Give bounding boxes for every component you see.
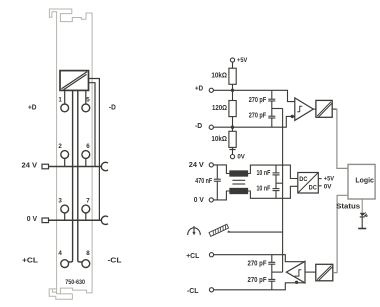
svg-text:-CL: -CL (187, 286, 199, 295)
svg-text:0 V: 0 V (27, 214, 37, 223)
svg-text:470 nF: 470 nF (195, 178, 212, 185)
svg-text:10kΩ: 10kΩ (211, 136, 227, 143)
svg-text:0 V: 0 V (194, 195, 204, 204)
svg-text:270 pF: 270 pF (249, 97, 267, 104)
svg-text:0V: 0V (324, 183, 332, 190)
svg-text:+D: +D (28, 102, 37, 111)
svg-text:DC: DC (309, 185, 317, 192)
svg-text:750-630: 750-630 (65, 280, 85, 286)
svg-text:+CL: +CL (22, 256, 38, 265)
svg-text:270 pF: 270 pF (248, 261, 268, 268)
svg-text:2: 2 (58, 143, 62, 150)
svg-text:-D: -D (195, 121, 203, 130)
svg-text:24 V: 24 V (189, 160, 204, 169)
svg-text:Status: Status (336, 202, 360, 211)
svg-text:+5V: +5V (324, 176, 335, 183)
svg-text:+D: +D (195, 84, 204, 93)
svg-text:1: 1 (58, 97, 62, 104)
svg-text:270 pF: 270 pF (249, 112, 267, 119)
svg-text:270 pF: 270 pF (248, 277, 268, 284)
svg-text:10 nF: 10 nF (257, 170, 271, 177)
svg-text:24 V: 24 V (22, 161, 38, 170)
svg-text:+5V: +5V (237, 57, 248, 64)
svg-text:5: 5 (86, 97, 90, 104)
svg-text:7: 7 (86, 198, 90, 205)
svg-text:+CL: +CL (186, 251, 199, 260)
svg-text:Logic: Logic (355, 175, 374, 184)
svg-text:120Ω: 120Ω (212, 105, 227, 112)
svg-text:10 nF: 10 nF (257, 186, 271, 193)
svg-text:6: 6 (86, 143, 90, 150)
svg-text:3: 3 (58, 198, 62, 205)
svg-text:8: 8 (86, 250, 90, 257)
svg-text:-CL: -CL (108, 256, 122, 265)
svg-text:4: 4 (58, 250, 62, 257)
svg-text:-D: -D (109, 102, 116, 111)
svg-text:10kΩ: 10kΩ (211, 73, 227, 80)
svg-text:DC: DC (299, 176, 307, 183)
svg-text:0V: 0V (237, 154, 245, 161)
